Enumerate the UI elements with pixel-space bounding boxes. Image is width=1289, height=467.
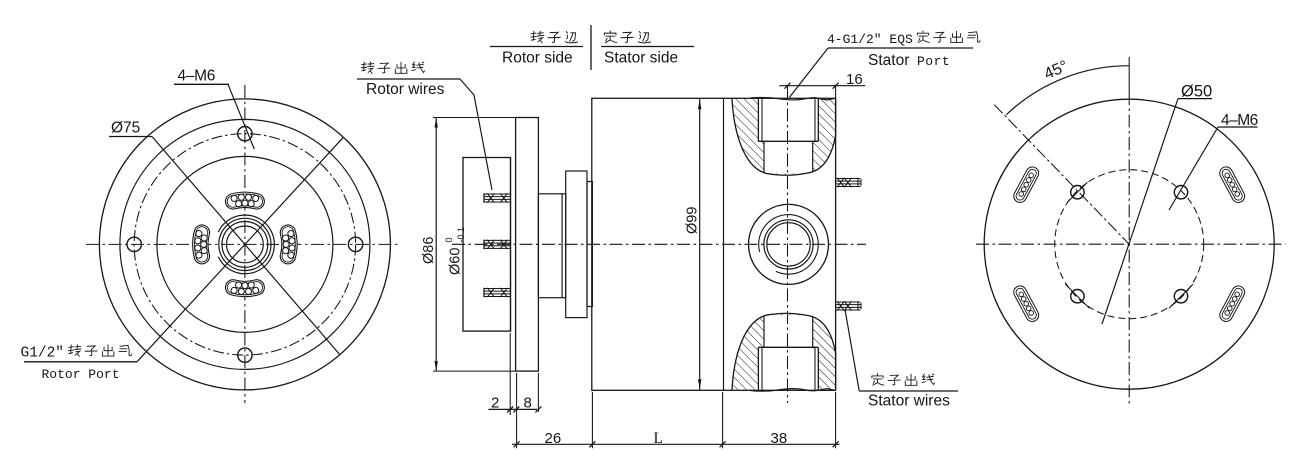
right view: pin slot top-left (1020, 173, 1032, 196)
bottom stator port: hatched section (732, 313, 836, 389)
left view: flange outer circle (99, 99, 390, 390)
left view: pin slot bottom (233, 287, 257, 289)
svg-text:4-G1/2″ EQS: 4-G1/2″ EQS (827, 32, 913, 47)
section view: stator block joint line (723, 98, 725, 390)
svg-text:0: 0 (444, 237, 454, 242)
right view: pin slot top-right (1226, 173, 1238, 196)
rotor wire bundle 1 (484, 193, 511, 195)
svg-text:Ø75: Ø75 (111, 120, 140, 137)
right view: 45 degree diagonal center line (994, 105, 1129, 245)
svg-text:26: 26 (545, 430, 562, 447)
left view: pin slot top (233, 200, 257, 202)
right view: M6 hole bottom-left (1071, 290, 1084, 303)
right view: M6 hole top-right (1174, 186, 1187, 199)
side port: thread arc (759, 215, 819, 275)
right view: vertical extension to 45deg arc (1128, 57, 1130, 92)
svg-text:38: 38 (771, 430, 788, 447)
label: 转子出线 / Rotor wires with leader (361, 62, 374, 73)
section view: shaft shoulder line (561, 194, 563, 298)
bottom port: pilot hole (763, 316, 765, 347)
dimension 26 / L / 38 (512, 443, 840, 445)
left view: horizontal center line (86, 243, 401, 245)
svg-text:Rotor wires: Rotor wires (366, 81, 445, 98)
section view: shaft step 1 (538, 194, 565, 298)
section view: shaft land ring (587, 182, 592, 307)
svg-text:Ø99: Ø99 (685, 207, 701, 234)
svg-text:Ø60: Ø60 (448, 248, 464, 275)
stator wire bundle 1 (836, 178, 861, 180)
left view: bolt circle (dash-dot) (134, 134, 355, 355)
rotor wire bundle 3 (484, 288, 511, 290)
svg-text:Ø50: Ø50 (1181, 83, 1212, 101)
header: 定子边 / Stator side (604, 31, 616, 43)
svg-text:Stator side: Stator side (604, 50, 678, 67)
left view: pin slot left (200, 233, 202, 257)
left view: body circle (120, 119, 370, 369)
header divider (590, 25, 592, 70)
bottom port: opening wavy edge (750, 389, 836, 392)
dimension Ø99 (699, 99, 701, 390)
svg-text:45°: 45° (1042, 58, 1071, 83)
top port: pilot hole (763, 141, 765, 172)
left view: M6 hole top (238, 127, 252, 141)
left view: boss outer arc with relief gap (218, 215, 274, 274)
section view: gap line (2mm) (510, 158, 512, 332)
left view: M6 hole bottom (238, 348, 252, 362)
svg-text:G1/2″: G1/2″ (21, 346, 65, 362)
label: 定子出线 / Stator wires with leader (872, 374, 884, 386)
right view: bolt circle Ø50 (dashed) (1055, 170, 1204, 319)
svg-text:Port: Port (917, 54, 950, 69)
section view: horizontal center line (452, 243, 866, 245)
rotor wire bundle 2 (484, 239, 511, 241)
side port: outer circle (749, 204, 829, 284)
section view: main body Ø99 (592, 98, 836, 390)
section view: shaft step disc (566, 171, 587, 318)
svg-text:Stator: Stator (868, 52, 909, 69)
right view: 45 degree dimension arc (1006, 66, 1129, 115)
svg-text:-0.1: -0.1 (456, 227, 466, 243)
left view: diagonal leader through center (from G1/2 rotor port label) (137, 137, 343, 361)
svg-text:L: L (654, 430, 663, 447)
right view: M6 hole bottom-right (1174, 290, 1187, 303)
section view: port vertical center line (787, 86, 789, 403)
section view: rotor connector box (463, 158, 511, 332)
dimension Ø86 (435, 118, 437, 372)
right view: stator end outer circle (984, 99, 1274, 389)
left view: M6 hole right (348, 237, 362, 251)
right view: pin slot bottom-left (1020, 292, 1032, 315)
top stator port: hatched section (732, 99, 836, 175)
svg-text:Stator wires: Stator wires (868, 393, 950, 410)
left view: pin slot right (288, 233, 290, 257)
header: 转子边 / Rotor side (531, 31, 544, 43)
left view: diagonal leader through center (from Ø75 label) (152, 137, 340, 355)
left view: M6 hole left (127, 237, 141, 251)
left view: center connector boss circles (227, 226, 264, 263)
left view: vertical center line (244, 85, 246, 403)
bottom port: threaded hole (757, 347, 759, 390)
svg-text:Ø86: Ø86 (421, 237, 437, 264)
right view: pin slot bottom-right (1226, 292, 1238, 315)
side port: thread inner circles (764, 220, 813, 269)
top port: threaded hole (757, 99, 759, 142)
left view: boss circle (157, 156, 333, 332)
svg-text:Rotor side: Rotor side (502, 50, 573, 67)
top port: opening wavy edge (750, 97, 836, 100)
svg-text:Rotor Port: Rotor Port (42, 367, 120, 382)
right view: horizontal center line (976, 243, 1286, 245)
section view: rotor flange plate (8mm) (516, 118, 539, 372)
right view: M6 hole top-left (1071, 186, 1084, 199)
stator wire bundle 2 (836, 301, 861, 303)
right view: vertical center line (1128, 92, 1130, 404)
svg-text:4–M6: 4–M6 (178, 68, 216, 85)
